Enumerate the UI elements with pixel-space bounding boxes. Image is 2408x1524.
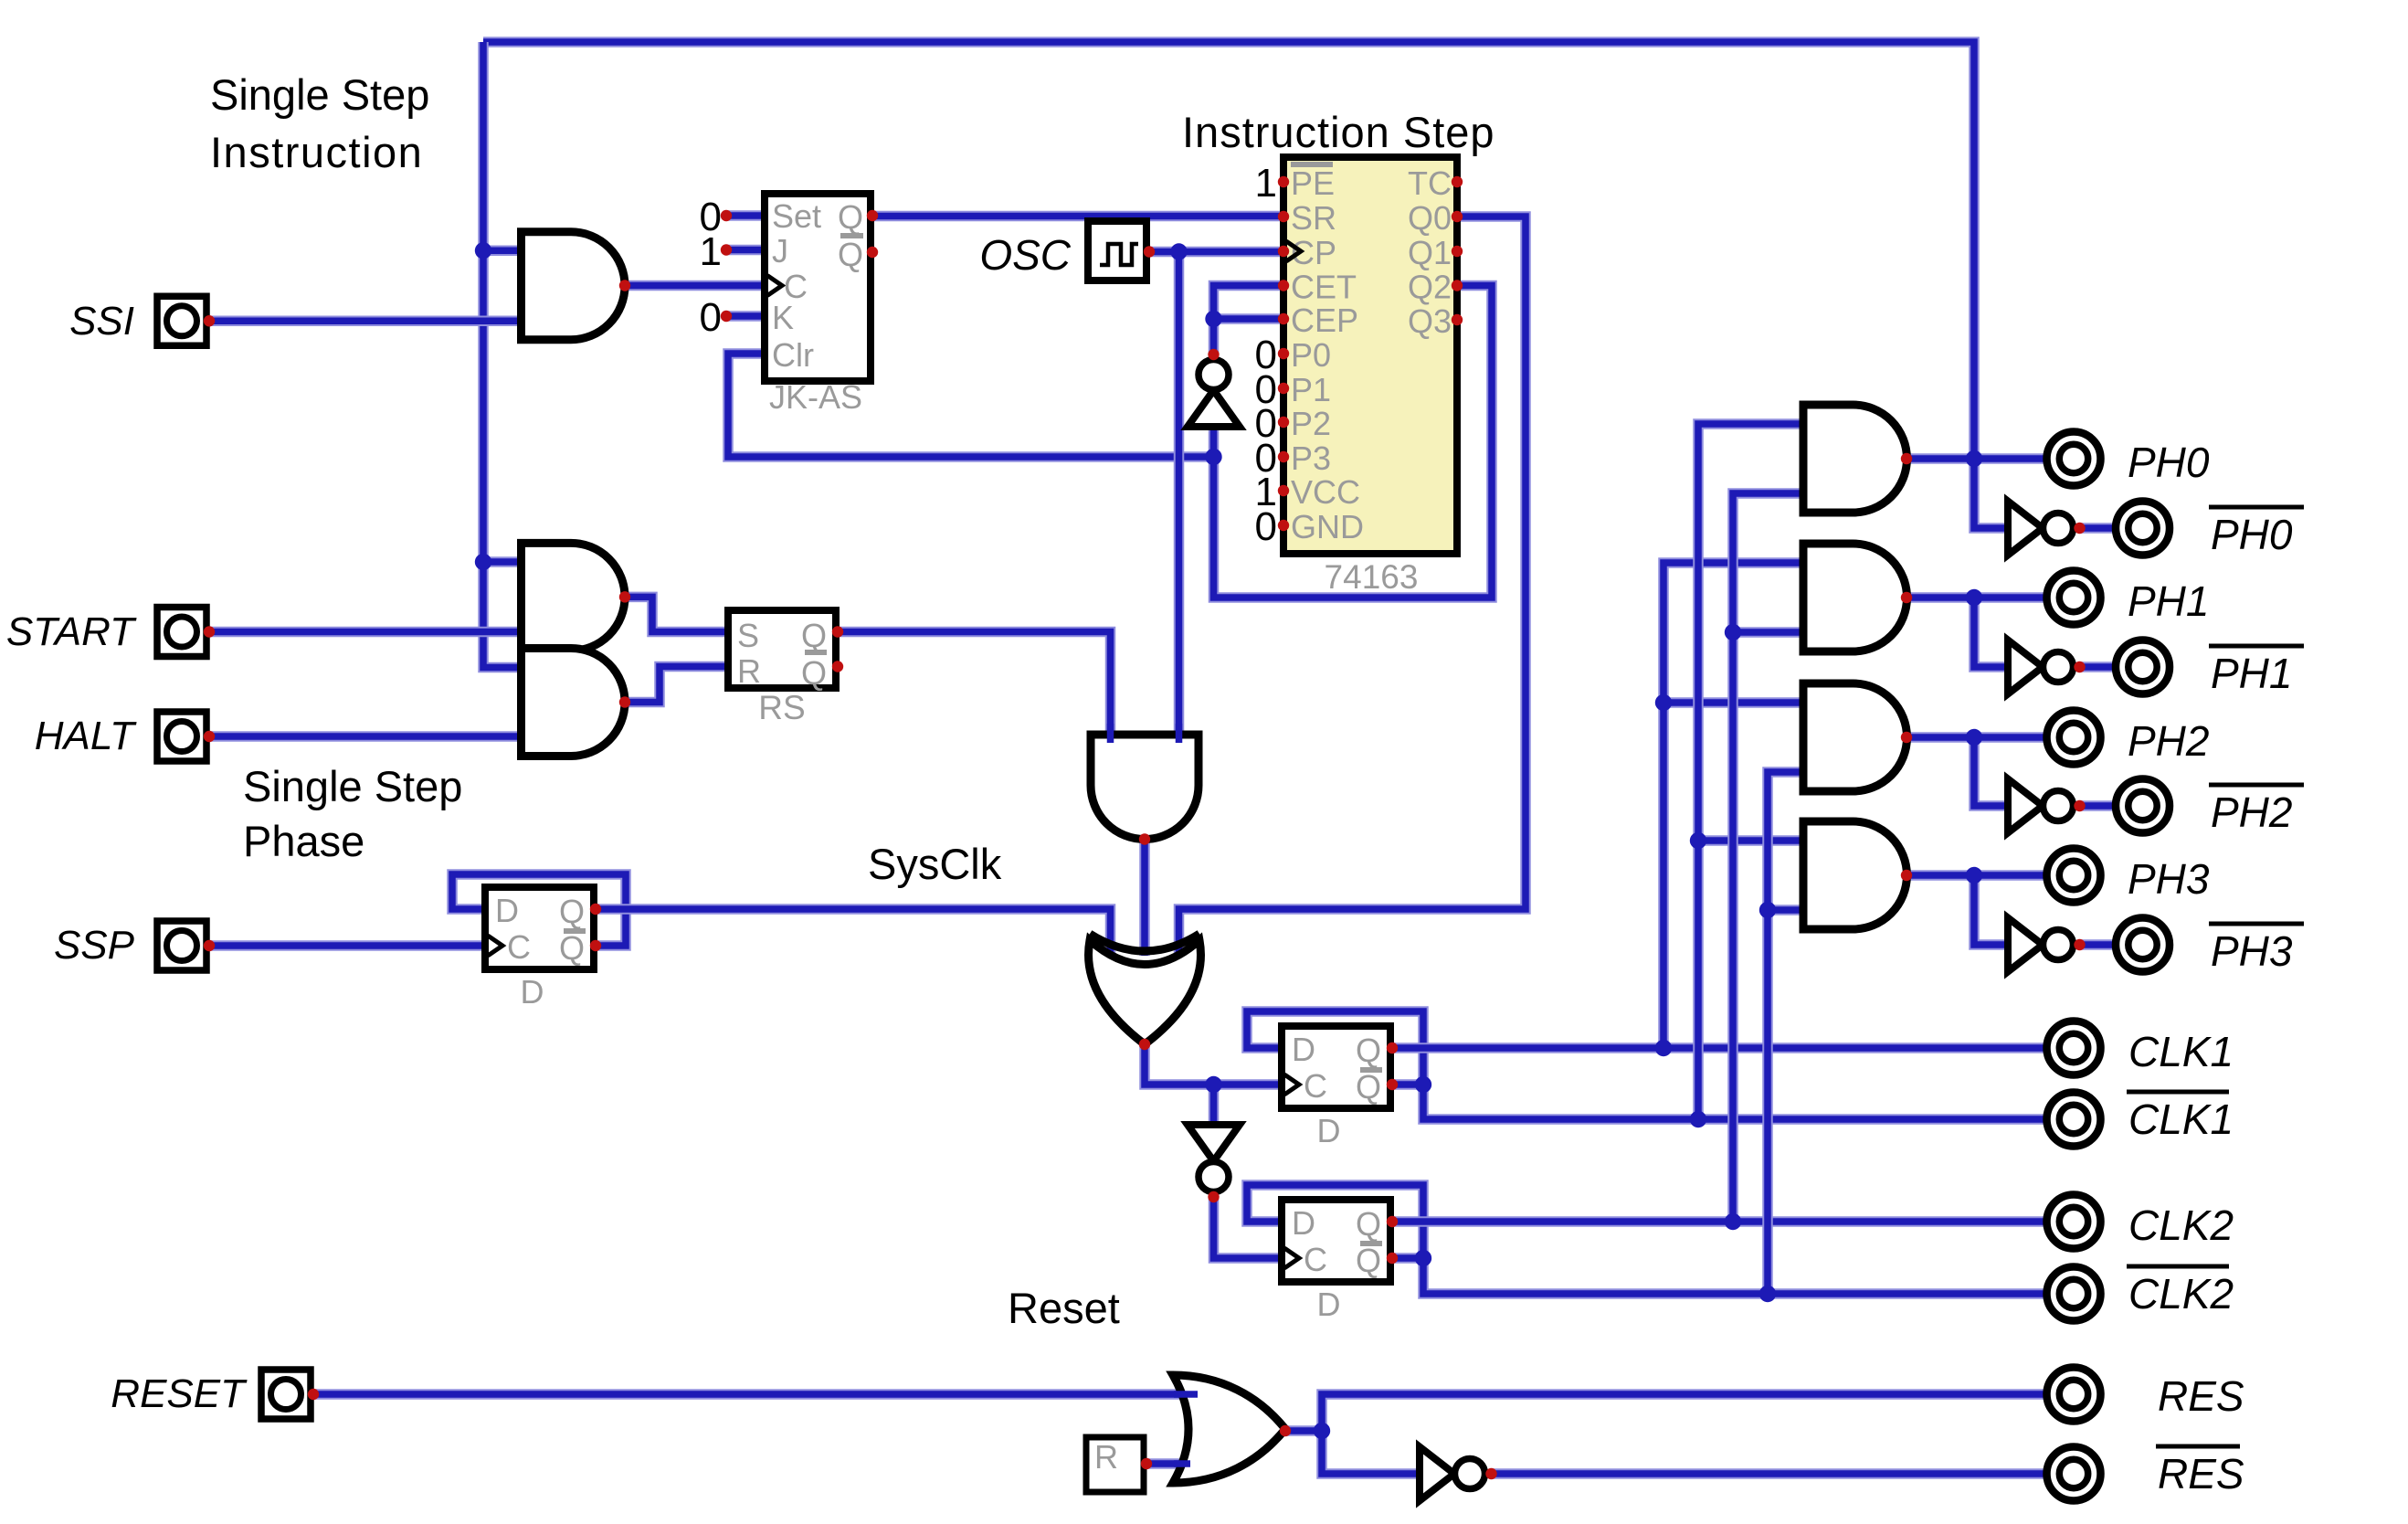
junction PH3 inverter tap [1966, 867, 1982, 884]
and-gate P0 phase0 [1803, 405, 1906, 513]
output connector PH1 [2047, 571, 2101, 625]
inverter N3 PH0bar [2008, 502, 2086, 556]
wire top feedback rail PH0 to left rail [483, 42, 2008, 528]
wire R const to OR gate [1146, 1458, 1182, 1469]
svg-text:0: 0 [700, 295, 722, 340]
const 0 74163 GND [1255, 504, 1277, 549]
output connector CLK2bar [2047, 1267, 2101, 1321]
wire inverter N7 out RESbar net [1490, 1468, 2044, 1479]
wire to inverter N7 [1322, 1431, 1420, 1474]
wire PH0 output [1906, 453, 2044, 464]
svg-text:D: D [1292, 1031, 1315, 1068]
counter U3 74163 [1278, 157, 1463, 596]
svg-text:Q: Q [838, 198, 863, 236]
label SSP [54, 923, 135, 968]
wire junction to inverter N2 [1209, 1085, 1220, 1125]
flip-flop U6 D clk2 [1282, 1200, 1398, 1323]
svg-text:Q: Q [838, 236, 863, 273]
label HALT [35, 714, 137, 758]
label PH3bar [2209, 924, 2304, 975]
and-gate P3 phase3 [1803, 821, 1906, 929]
svg-text:J: J [772, 232, 788, 270]
pin gate A2 output [619, 591, 630, 602]
svg-text:CLK2: CLK2 [2128, 1270, 2234, 1318]
input connector HALT [157, 712, 215, 761]
wire inverter N5 to PH2bar connector [2080, 800, 2114, 811]
svg-text:Clr: Clr [772, 336, 814, 374]
and-gate P2 phase2 [1803, 683, 1907, 791]
wire rail CLK2bar tap to gate P3 bottom [1768, 905, 1803, 915]
output connector PH0 [2047, 432, 2101, 486]
svg-text:Q: Q [559, 929, 585, 967]
wire Q0 to XOR right input [1179, 217, 1526, 956]
and-gate A4 sysclk [1091, 724, 1199, 840]
output connector CLK1bar [2047, 1093, 2101, 1147]
junction rail CLK1bar bottom [1690, 1111, 1706, 1127]
svg-text:Q: Q [801, 654, 827, 692]
wire SSP FF Q to XOR left input [594, 909, 1111, 956]
svg-text:P2: P2 [1291, 405, 1331, 442]
wire rail CLK1 vertical [1663, 563, 1803, 1048]
wire FF2 Q CLK2 net [1390, 1216, 2044, 1227]
svg-text:D: D [1292, 1204, 1315, 1242]
svg-text:JK-AS: JK-AS [769, 378, 862, 416]
output connector PH3 [2047, 849, 2101, 903]
junction rail gate A1 [475, 242, 491, 259]
junction CEP tap [1205, 311, 1221, 327]
svg-text:RS: RS [758, 689, 805, 726]
junction XOR out to inverter N2 [1205, 1076, 1221, 1093]
input connector RESET [261, 1370, 319, 1419]
wire SSP FF toggle loop [452, 874, 626, 946]
output connector RES [2047, 1368, 2101, 1422]
const 1 74163 VCC [1255, 470, 1277, 514]
wire SSI to gate A1 [209, 316, 522, 327]
svg-text:Q2: Q2 [1408, 269, 1452, 306]
svg-text:Q: Q [1356, 1205, 1381, 1243]
label RESbar [2156, 1446, 2244, 1498]
svg-text:Phase: Phase [243, 817, 364, 865]
inverter N6 PH3bar [2008, 918, 2086, 972]
and-gate A2 start [522, 543, 626, 651]
inverter N1 Q2 to CEP [1188, 349, 1240, 427]
output connector PH1bar [2116, 640, 2170, 694]
pin gate A3 output [619, 696, 630, 707]
svg-text:R: R [1094, 1438, 1118, 1476]
wire RS Q to gate A4 left input [836, 632, 1111, 736]
wire PH2 to inverter N5 [1974, 737, 2008, 806]
wire inverter N6 to PH3bar connector [2080, 939, 2114, 950]
label SysClk [868, 840, 1002, 888]
svg-text:C: C [1304, 1067, 1327, 1105]
svg-text:RES: RES [2158, 1450, 2244, 1498]
svg-text:D: D [1317, 1112, 1341, 1149]
svg-text:Q: Q [1356, 1032, 1381, 1069]
svg-text:Instruction: Instruction [210, 128, 423, 176]
wire OSC branch down to gate A4 [1174, 252, 1185, 736]
wire XOR out to FF1 C [1145, 1044, 1282, 1085]
title Single Step Instruction line2 [210, 128, 423, 176]
wire rail CLK2bar vertical [1768, 772, 1803, 1294]
svg-text:PH3: PH3 [2211, 927, 2293, 975]
wire const0 to JK Set [726, 210, 765, 221]
svg-text:Single Step: Single Step [210, 70, 429, 119]
svg-text:C: C [507, 928, 531, 966]
wire rail CLK2 tap to gate P1 bottom [1733, 627, 1803, 638]
svg-text:P3: P3 [1291, 439, 1331, 477]
wire CEP stub [1214, 313, 1284, 324]
input connector START [157, 608, 215, 657]
label PH1 [2128, 577, 2209, 625]
svg-text:PH2: PH2 [2128, 717, 2209, 765]
svg-text:Q: Q [559, 893, 585, 930]
svg-text:C: C [1304, 1241, 1327, 1278]
svg-text:PH0: PH0 [2211, 511, 2293, 558]
label PH2bar [2209, 785, 2304, 836]
wire rail CLK1bar vertical [1698, 424, 1803, 1119]
junction OSC branch [1170, 243, 1187, 259]
and-gate P1 phase1 [1803, 544, 1907, 651]
label PH3 [2128, 855, 2210, 903]
wire inverter N4 to PH1bar connector [2080, 661, 2114, 672]
svg-text:Instruction Step: Instruction Step [1182, 108, 1495, 156]
junction rail CLK1 on gate P2 tap [1655, 694, 1672, 711]
svg-text:SSP: SSP [54, 923, 135, 968]
title Single Step Phase line2 [243, 817, 364, 865]
label START [6, 609, 137, 654]
wire SSP to D flip-flop C [209, 940, 485, 951]
const 1 JK J [700, 229, 733, 274]
svg-text:START: START [6, 609, 137, 654]
junction Clr Q2 inverter node [1205, 449, 1221, 465]
label CLK1 [2128, 1028, 2234, 1075]
pin gate P2 output [1901, 732, 1912, 743]
inverter N2 sysclk to FF2 clock [1188, 1125, 1240, 1202]
title Instruction Step [1182, 108, 1495, 156]
junction rail CLK2 on gate P1 tap [1725, 624, 1741, 640]
const 0 JK Set [700, 195, 733, 239]
output connector PH0bar [2116, 502, 2170, 556]
svg-text:D: D [1317, 1286, 1341, 1323]
wire FF2 Qbar CLK2bar net [1423, 1258, 2044, 1294]
junction PH1 inverter tap [1966, 589, 1982, 606]
wire const0 to JK K [726, 311, 765, 322]
svg-text:Q0: Q0 [1408, 199, 1452, 237]
inverter N5 PH2bar [2008, 779, 2086, 833]
junction PH2 inverter tap [1966, 729, 1982, 746]
svg-text:Set: Set [772, 197, 821, 235]
label RES [2158, 1372, 2244, 1420]
svg-text:R: R [737, 652, 761, 690]
output connector RESbar [2047, 1447, 2101, 1501]
label OSC [979, 231, 1071, 279]
wire const1 to JK J [726, 245, 765, 256]
wire rail CLK2 vertical [1733, 493, 1803, 1222]
svg-text:TC: TC [1408, 164, 1452, 202]
label PH0bar [2209, 507, 2304, 558]
output connector PH3bar [2116, 918, 2170, 972]
const 0 74163 P1 [1255, 367, 1277, 412]
svg-text:PH1: PH1 [2211, 650, 2292, 697]
svg-text:CLK1: CLK1 [2128, 1028, 2234, 1075]
inverter N4 PH1bar [2008, 640, 2086, 694]
junction FF1 Qbar loop [1415, 1076, 1431, 1093]
wire gate A3 out to RS R [625, 667, 730, 703]
const 0 JK K [700, 295, 733, 340]
wire PH2 output [1906, 732, 2044, 743]
wire gate A2 out to RS S [625, 597, 730, 631]
svg-text:Q: Q [1356, 1068, 1381, 1106]
junction PH0 feedback [1966, 450, 1982, 467]
label CLK1bar [2127, 1092, 2234, 1143]
svg-text:PH3: PH3 [2128, 855, 2210, 903]
wire FF1 toggle loop [1247, 1011, 1423, 1085]
label Reset [1008, 1284, 1120, 1332]
input connector SSI [157, 296, 215, 345]
wire rail to gate A1 top input [483, 246, 522, 257]
svg-text:Single Step: Single Step [243, 762, 462, 810]
const 1 74163 PE [1255, 161, 1277, 206]
flip-flop U4 D single-step-phase [485, 887, 601, 1011]
wire gate A1 out to JK C [625, 280, 765, 291]
svg-text:RESET: RESET [111, 1371, 248, 1416]
svg-text:1: 1 [1255, 161, 1277, 206]
output connector PH2 [2047, 711, 2101, 765]
svg-text:SysClk: SysClk [868, 840, 1002, 888]
label RESET [111, 1371, 248, 1416]
wire FF1 Qbar CLK1bar net [1423, 1085, 2044, 1119]
junction rail CLK1bar on gate P3 tap [1690, 832, 1706, 849]
wire START to gate A2 [209, 627, 522, 638]
wire PH1 output [1906, 592, 2044, 603]
inverter N7 RESbar [1420, 1447, 1497, 1501]
svg-text:PE: PE [1291, 164, 1335, 202]
const 0 74163 P0 [1255, 333, 1277, 377]
pin gate P0 output [1901, 453, 1912, 464]
wire FF1 Q CLK1 net [1390, 1042, 2044, 1053]
xor-gate X1 sysclk select [1089, 934, 1201, 1044]
junction rail CLK1 bottom [1655, 1040, 1672, 1056]
label PH0 [2128, 439, 2210, 486]
oscillator OSC [1088, 221, 1155, 280]
wire rail CLK1bar tap to gate P3 top [1698, 835, 1803, 846]
wire rail CLK1 tap to gate P2 top [1663, 697, 1803, 708]
pin OR output [1280, 1425, 1291, 1436]
wire OR out junction [1285, 1425, 1322, 1436]
label CLK2bar [2127, 1266, 2234, 1318]
svg-text:SSI: SSI [69, 299, 134, 344]
svg-text:Q: Q [1356, 1242, 1381, 1279]
output connector CLK1 [2047, 1021, 2101, 1075]
const 0 74163 P2 [1255, 401, 1277, 446]
junction RES split [1314, 1423, 1330, 1439]
junction rail CLK2 bottom [1725, 1213, 1741, 1230]
pin XOR output [1139, 1039, 1150, 1050]
svg-text:P0: P0 [1291, 336, 1331, 374]
svg-text:PH1: PH1 [2128, 577, 2209, 625]
wire gate A4 out to XOR middle input [1139, 840, 1150, 957]
wire RES net [1322, 1394, 2044, 1431]
and-gate A1 single step instruction [522, 232, 626, 340]
svg-text:HALT: HALT [35, 714, 137, 758]
svg-text:Q3: Q3 [1408, 302, 1452, 340]
wire PH1 to inverter N4 [1974, 598, 2008, 667]
label CLK2 [2128, 1201, 2234, 1249]
wire Q2 loop around 74163 [1214, 286, 1493, 598]
const R reset [1086, 1437, 1152, 1492]
junction rail CLK2bar bottom [1759, 1286, 1776, 1302]
wire left vertical rail to gate A3 top input [483, 42, 522, 668]
wire rail to gate A2 top input [483, 556, 522, 567]
wire inverter N2 out to FF2 C [1214, 1196, 1283, 1258]
svg-text:0: 0 [1255, 504, 1277, 549]
pin gate A1 output [619, 280, 630, 291]
label PH2 [2128, 717, 2209, 765]
svg-text:CLK2: CLK2 [2128, 1201, 2234, 1249]
flip-flop U1 JK-AS [765, 194, 878, 416]
title Single Step Instruction line1 [210, 70, 429, 119]
wire JK Q to 74163 SR [871, 211, 1283, 222]
svg-text:1: 1 [700, 229, 722, 274]
pin gate P1 output [1901, 592, 1912, 603]
label SSI [69, 299, 134, 344]
and-gate A3 halt [522, 648, 626, 756]
svg-text:K: K [772, 299, 794, 336]
svg-text:VCC: VCC [1291, 473, 1360, 511]
svg-text:74163: 74163 [1325, 558, 1419, 596]
wire HALT to gate A3 [209, 731, 522, 742]
svg-text:CEP: CEP [1291, 302, 1358, 339]
wire OSC out to 74163 CP [1149, 247, 1283, 258]
or-gate O1 reset [1173, 1375, 1285, 1483]
svg-text:CLK1: CLK1 [2128, 1095, 2234, 1143]
pin gate A4 output [1139, 833, 1150, 844]
wire CET vertical [1214, 286, 1284, 357]
svg-text:Q1: Q1 [1408, 234, 1452, 271]
wire inverter N3 to PH0bar connector [2080, 523, 2114, 534]
wire RESET to OR gate [313, 1389, 1182, 1400]
svg-text:SR: SR [1291, 199, 1336, 237]
svg-text:Reset: Reset [1008, 1284, 1120, 1332]
junction rail gate A2 [475, 554, 491, 570]
svg-text:D: D [495, 892, 519, 929]
output connector CLK2 [2047, 1195, 2101, 1249]
svg-text:PH2: PH2 [2211, 788, 2292, 836]
svg-text:PH0: PH0 [2128, 439, 2210, 486]
junction rail CLK2bar on gate P3 tap [1759, 902, 1776, 918]
input connector SSP [157, 921, 215, 970]
svg-text:RES: RES [2158, 1372, 2244, 1420]
pin gate P3 output [1901, 870, 1912, 881]
const 0 74163 P3 [1255, 436, 1277, 481]
wire PH3 output [1906, 870, 2044, 881]
title Single Step Phase line1 [243, 762, 462, 810]
svg-text:CET: CET [1291, 269, 1357, 306]
flip-flop U5 D clk1 [1282, 1026, 1398, 1149]
output connector PH2bar [2116, 779, 2170, 833]
label PH1bar [2209, 646, 2304, 697]
wire inverter N1 input [1209, 427, 1220, 457]
wire PH3 to inverter N6 [1974, 875, 2008, 945]
svg-text:P1: P1 [1291, 371, 1331, 408]
svg-text:D: D [521, 973, 544, 1011]
svg-text:S: S [737, 617, 759, 654]
wire JK Clr loop [728, 354, 1214, 457]
svg-text:OSC: OSC [979, 231, 1071, 279]
wire FF2 toggle loop [1247, 1185, 1423, 1258]
svg-text:Q: Q [801, 617, 827, 654]
svg-text:GND: GND [1291, 508, 1364, 545]
latch U2 RS [728, 610, 843, 726]
junction FF2 Qbar loop [1415, 1250, 1431, 1266]
